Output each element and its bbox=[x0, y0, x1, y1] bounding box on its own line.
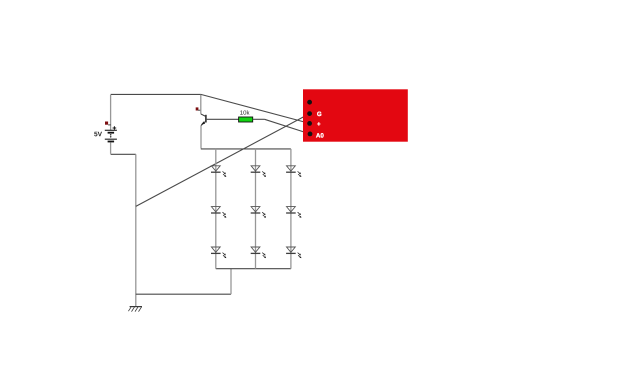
wire LED column 1 bbox=[215, 149, 217, 269]
board U1 pin 2 G bbox=[307, 111, 322, 118]
board U1 pin 3 + bbox=[307, 121, 321, 128]
LED D1 bbox=[211, 166, 226, 177]
LED D2 bbox=[251, 166, 266, 177]
wire battery negative lead bbox=[110, 142, 112, 153]
svg-text:5V: 5V bbox=[94, 131, 103, 138]
LED D4 bbox=[211, 207, 226, 218]
wire long diagonal from ground bus to board pin G bbox=[136, 114, 310, 207]
svg-text:+: + bbox=[317, 121, 321, 128]
wire collector vertical bbox=[200, 95, 202, 114]
wire LED column 3 bbox=[290, 149, 292, 269]
LED D3 bbox=[286, 166, 301, 177]
LED D7 bbox=[211, 247, 226, 258]
wire top rail from battery + to transistor collector bbox=[111, 93, 201, 95]
svg-text:G: G bbox=[317, 111, 322, 118]
wire left vertical (ground bus) bbox=[135, 154, 137, 306]
wire battery positive lead bbox=[110, 95, 112, 130]
board U1 pin 4 A0 bbox=[308, 132, 325, 140]
resistor R1 10k bbox=[239, 110, 253, 122]
svg-text:10k: 10k bbox=[240, 110, 251, 117]
board U1 pin 1 bbox=[307, 100, 312, 105]
transistor Q1 label (red) bbox=[196, 107, 201, 110]
wire LED matrix bottom bar bbox=[216, 268, 291, 270]
board U1 (red module) bbox=[303, 89, 408, 141]
wire resistor right lead bbox=[253, 118, 265, 120]
svg-text:A0: A0 bbox=[316, 132, 324, 139]
wire diagonal from resistor to board pin A0 bbox=[265, 119, 310, 134]
battery BAT1 label (red) bbox=[105, 122, 111, 125]
LED D9 bbox=[286, 247, 301, 258]
transistor Q1 bbox=[201, 114, 206, 126]
wire base lead to resistor bbox=[206, 118, 239, 120]
wire emitter rail (LED matrix top bar) bbox=[201, 148, 291, 150]
LED D6 bbox=[286, 207, 301, 218]
wire emitter vertical bbox=[200, 126, 202, 149]
battery BAT1 5V bbox=[94, 126, 117, 141]
wire drop from LED matrix to bottom rail bbox=[230, 269, 232, 295]
ground bbox=[128, 307, 142, 312]
wire LED column 2 bbox=[255, 149, 257, 269]
LED D8 bbox=[251, 247, 266, 258]
wire bottom rail bbox=[136, 293, 231, 295]
wire diagonal from top rail to board pin + bbox=[201, 94, 310, 123]
LED D5 bbox=[251, 207, 266, 218]
